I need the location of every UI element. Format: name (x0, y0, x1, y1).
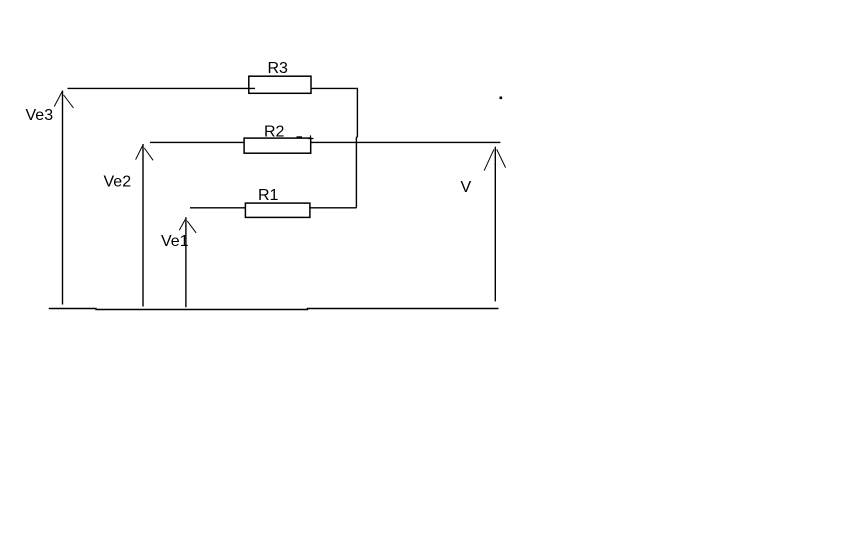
stray dot (500, 97, 503, 100)
source arrow Ve2 (136, 144, 154, 307)
source arrow Ve1 (179, 217, 196, 307)
source arrow Ve3 (54, 91, 73, 305)
svg-text:V: V (461, 179, 472, 196)
svg-text:R1: R1 (258, 187, 279, 204)
wire R2 right output to V (311, 141, 501, 143)
svg-text:Ve1: Ve1 (161, 233, 189, 250)
wire Ve2 to R2 left (150, 141, 244, 143)
stray caret mark at R2 top right (308, 135, 314, 140)
svg-text:R2: R2 (264, 124, 285, 141)
wire R3 right to node (311, 87, 357, 89)
wire R1 right to node (310, 207, 357, 209)
wire Ve3 top to R3 left (68, 87, 256, 89)
resistor R2 (244, 138, 311, 153)
output arrow V (484, 147, 506, 302)
stray mark on R2 top edge (297, 136, 303, 138)
ground wire (49, 309, 499, 310)
node A vertical wire (356, 88, 357, 208)
resistor R1 (245, 203, 310, 217)
svg-text:Ve3: Ve3 (26, 107, 54, 124)
svg-text:Ve2: Ve2 (104, 174, 132, 191)
wire Ve1 to R1 left (190, 207, 246, 209)
resistor R3 (249, 76, 311, 93)
svg-text:R3: R3 (268, 60, 289, 77)
